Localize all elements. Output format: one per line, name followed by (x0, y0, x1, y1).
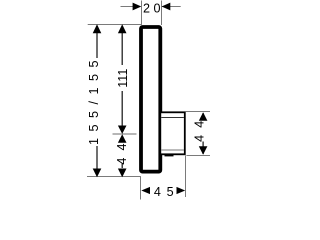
extension line top left (141, 1, 143, 26)
box lower rim line (161, 149, 184, 151)
dimension 20 right line (162, 6, 181, 8)
dimension 111 line segment (121, 26, 123, 65)
dimension 44 left up arrow (118, 134, 127, 142)
dimension 20 right arrow (162, 3, 171, 11)
dimension 20 left line (121, 6, 141, 8)
dimension 111 up arrow (118, 24, 127, 33)
svg-text:4 5: 4 5 (154, 185, 175, 199)
dimension 44 left line segment (121, 163, 123, 168)
box bottom notch (165, 155, 174, 157)
box bottom extension line (186, 155, 210, 157)
trim plate outline (side view) (141, 27, 160, 172)
svg-text:1 5 5 / 1 5 5: 1 5 5 / 1 5 5 (87, 59, 101, 145)
svg-text:4 4: 4 4 (115, 142, 129, 165)
extension line top right (161, 1, 163, 26)
dimension 155 down arrow (93, 169, 102, 178)
dimension 155 up arrow (93, 24, 102, 33)
mid tick line (handle centre) (113, 133, 137, 135)
bottom dimension left extension line (140, 177, 142, 200)
dimension 44 right lower segment (202, 142, 204, 155)
svg-text:2 0: 2 0 (143, 2, 161, 16)
box top extension line (186, 111, 211, 113)
dimension 44 right upper segment (202, 113, 204, 120)
dimension 20 left arrow (133, 3, 142, 11)
dimension 44 right up arrow (199, 112, 208, 120)
bottom reference line (87, 176, 141, 178)
dimension 45 right arrow (177, 187, 186, 194)
bottom dimension right extension line (185, 156, 187, 198)
dimension 44 right down arrow (199, 146, 208, 154)
dimension 45 left arrow (141, 187, 150, 194)
dimension 155 line upper segment (96, 26, 98, 58)
concealed body box (160, 112, 185, 154)
top reference line (88, 24, 142, 26)
dimension 111 lower segment (121, 91, 123, 126)
dimension 155 line lower segment (96, 146, 98, 172)
svg-text:4 4: 4 4 (193, 119, 207, 142)
dimension 111 down arrow (118, 126, 127, 134)
dimension 44 left down arrow (118, 169, 127, 178)
svg-text:111: 111 (116, 69, 130, 88)
box upper rim line (161, 117, 184, 119)
